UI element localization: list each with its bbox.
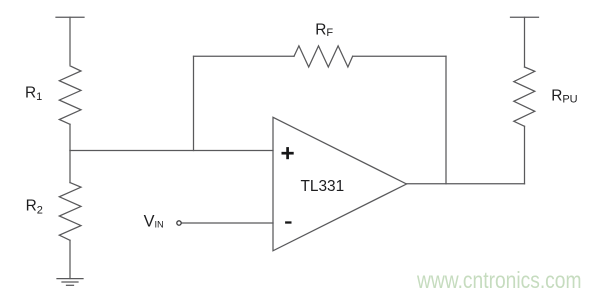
op-amp + input pin label [282,147,294,159]
resistor R2 [59,183,81,241]
node A wire to op-amp + input [70,150,273,152]
wire supply to RPU [524,17,526,67]
terminal VIN circle [177,221,181,225]
power bar V+ left [56,16,84,18]
wire supply to R1 [69,17,71,64]
svg-text:RPU: RPU [551,87,577,105]
wire R1 to node [69,124,71,150]
svg-text:R1: R1 [25,85,42,103]
power bar V+ right [511,16,539,18]
wire output [407,183,525,185]
resistor R1 [59,66,81,125]
resistor RPU [514,67,535,126]
svg-text:RF: RF [315,21,333,39]
svg-text:VIN: VIN [144,213,164,231]
op-amp - input pin label [285,221,291,223]
op-amp U1 TL331 triangle [273,117,407,251]
svg-text:R2: R2 [26,198,43,217]
wire VIN to - input [182,222,274,224]
svg-text:TL331: TL331 [301,178,345,195]
wire feedback vertical right to output [445,56,447,184]
wire feedback vertical left [193,56,195,150]
wire node to R2 [69,151,71,183]
svg-text:www.cntronics.com: www.cntronics.com [416,267,581,293]
wire R2 to ground [69,240,71,278]
wire RF left [194,55,295,57]
resistor RF [294,46,353,67]
wire RF right [353,55,446,57]
ground [57,279,83,286]
wire RPU bottom [524,126,526,184]
